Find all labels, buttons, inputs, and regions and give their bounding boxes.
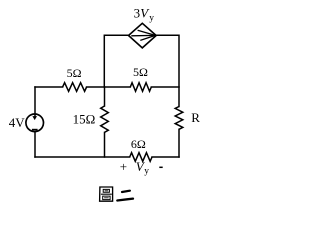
wire: middle rail left lead (left branch to 5ohm R1) xyxy=(35,86,63,88)
wire: bottom rail right segment (6ohm to bottom-right corner) xyxy=(152,156,179,158)
resistor R (vertical zigzag) xyxy=(175,107,183,130)
wire: top rail right segment and right vertical down to resistor R xyxy=(156,35,179,106)
caption: figure label "tu" (CJK drawn as strokes) xyxy=(100,187,113,201)
resistor 6ohm (bottom rail) xyxy=(130,153,152,162)
label 4V xyxy=(9,115,26,130)
wire: left branch bottom (source V1 to bottom-left corner) xyxy=(34,132,36,157)
svg-text:3: 3 xyxy=(134,5,141,20)
label 5ohm R2 xyxy=(133,65,148,79)
svg-text:4V: 4V xyxy=(9,115,26,130)
voltage source V1 4V (circle) xyxy=(26,114,44,132)
wire: centre vertical lead (15ohm down to bottom rail) xyxy=(104,132,106,157)
label +Vy- (voltage across 6ohm) xyxy=(120,159,163,177)
resistor 15ohm (vertical zigzag) xyxy=(101,106,109,132)
wire: middle rail centre segment (R1 to R2 through node) xyxy=(87,86,131,88)
label 5ohm R1 xyxy=(67,66,82,80)
wire: bottom rail left segment (bottom-left corner to 6ohm) xyxy=(35,156,130,158)
svg-text:y: y xyxy=(144,167,149,177)
wire: top rail left segment (top-left corner to dependent source) xyxy=(104,35,128,87)
label R xyxy=(191,110,200,125)
wire: left branch top (middle rail down to source V1) xyxy=(34,87,36,117)
svg-text:y: y xyxy=(149,14,154,24)
svg-text:5Ω: 5Ω xyxy=(67,66,82,80)
svg-text:R: R xyxy=(191,110,200,125)
label 6ohm xyxy=(131,137,146,151)
dependent source 3Vy (diamond with right arrow) xyxy=(129,23,157,48)
resistor 5ohm R2 (middle rail right) xyxy=(130,83,151,92)
wire: right vertical below R to bottom-right corner xyxy=(178,129,180,157)
svg-text:6Ω: 6Ω xyxy=(131,137,146,151)
wire: centre vertical lead (node at middle rail down to 15ohm) xyxy=(104,87,106,106)
wire: middle rail right lead (R2 to right vertical) xyxy=(151,86,179,88)
svg-text:15Ω: 15Ω xyxy=(73,112,96,127)
resistor 5ohm R1 (middle rail left) xyxy=(63,83,87,92)
label 15ohm xyxy=(73,112,96,127)
label 3Vy xyxy=(134,5,155,23)
svg-text:+: + xyxy=(120,159,127,174)
caption: figure label "er" (CJK two drawn as strokes) xyxy=(117,191,133,201)
svg-text:5Ω: 5Ω xyxy=(133,65,148,79)
